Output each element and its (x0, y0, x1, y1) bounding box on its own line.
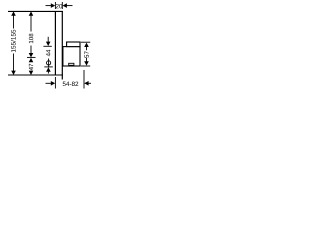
connection axis circle (47, 61, 51, 65)
dimension 44 (connection height) with axis symbol (43, 37, 52, 74)
plate side view: back face line (with stub below bottom line) (61, 11, 63, 80)
slot inside body bottom (69, 63, 74, 65)
dimension 155/155 (left overall height) (11, 11, 16, 75)
dimension 108 (upper part) (27, 11, 36, 57)
dimension 54-82 (installation depth, bottom) (46, 70, 92, 89)
dimension 47 (lower part) (29, 58, 34, 75)
dimension 57 (unit height, right) (81, 42, 90, 66)
left extension line (54, 77, 56, 89)
functional unit body (side view box) (63, 47, 80, 66)
dimension 20 (plate depth, top) (46, 2, 73, 9)
functional unit lid (67, 42, 80, 47)
wire: top extension line (8, 10, 63, 12)
background (0, 0, 115, 96)
right extension line (83, 70, 85, 89)
plate side view: front face line (54, 11, 56, 75)
wire: bottom extension line (8, 74, 63, 76)
